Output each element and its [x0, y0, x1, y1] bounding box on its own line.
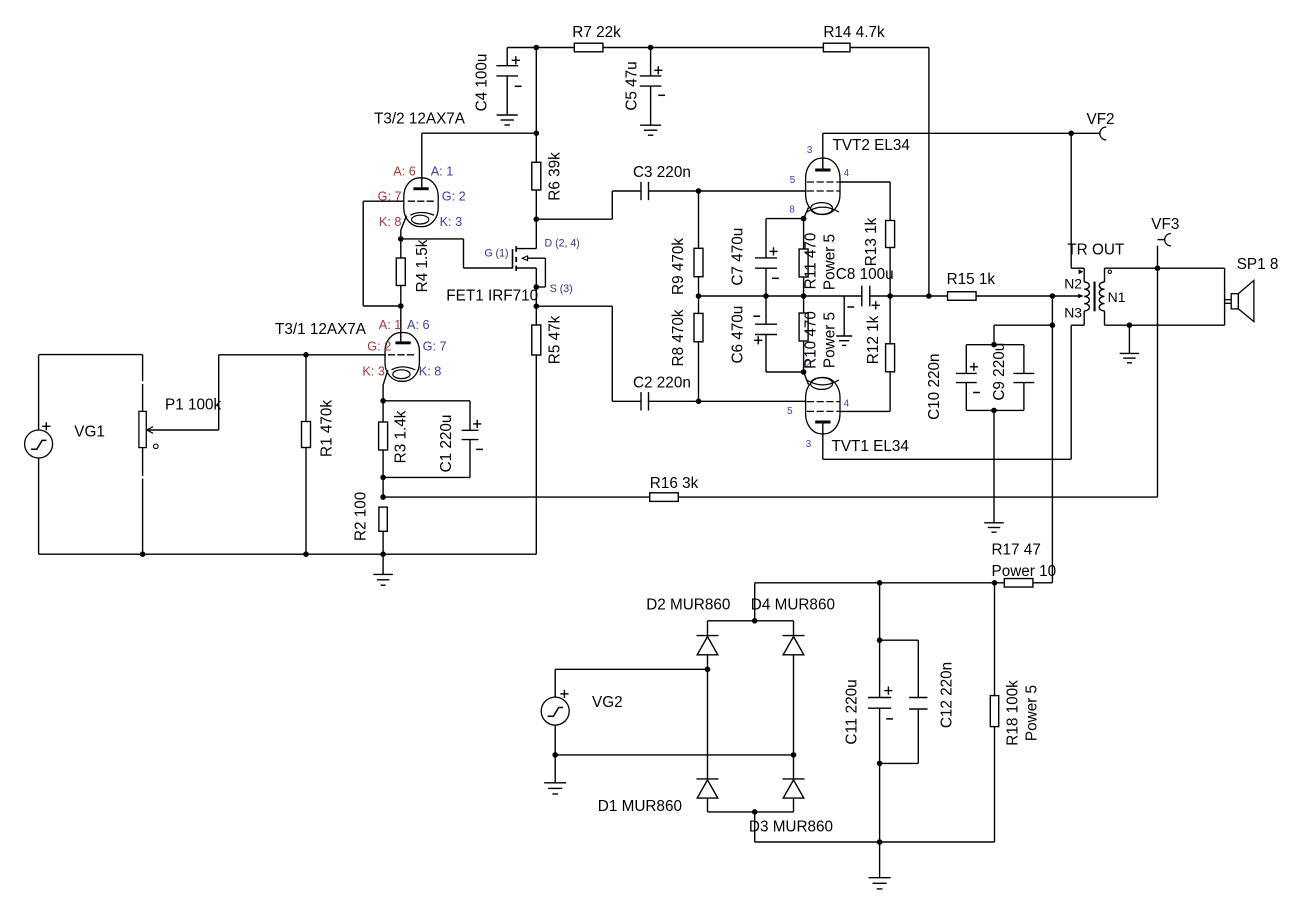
- svg-text:K: 8: K: 8: [419, 364, 442, 378]
- svg-text:R2 100: R2 100: [353, 492, 370, 541]
- svg-text:K: 8: K: 8: [379, 215, 402, 229]
- svg-text:SP1 8: SP1 8: [1237, 256, 1279, 273]
- svg-text:C1 220u: C1 220u: [438, 415, 455, 473]
- svg-text:G: 7: G: 7: [423, 340, 447, 354]
- svg-text:R13 1k: R13 1k: [863, 217, 880, 266]
- svg-text:R9 470k: R9 470k: [670, 238, 687, 295]
- svg-text:C7 470u: C7 470u: [730, 228, 747, 286]
- svg-text:C3 220n: C3 220n: [633, 164, 691, 181]
- svg-text:K: 3: K: 3: [440, 215, 463, 229]
- svg-text:C11 220u: C11 220u: [844, 679, 861, 744]
- svg-text:R10 470: R10 470: [803, 311, 820, 369]
- svg-text:D4 MUR860: D4 MUR860: [751, 596, 835, 613]
- svg-text:TR OUT: TR OUT: [1067, 242, 1124, 259]
- svg-text:Power 5: Power 5: [822, 312, 839, 368]
- svg-text:G: 2: G: 2: [367, 340, 391, 354]
- svg-text:R6 39k: R6 39k: [547, 152, 564, 201]
- svg-text:5: 5: [790, 175, 796, 186]
- svg-text:VG1: VG1: [74, 424, 105, 441]
- svg-text:FET1 IRF710: FET1 IRF710: [446, 288, 538, 305]
- svg-text:G: 2: G: 2: [442, 190, 466, 204]
- svg-text:R8 470k: R8 470k: [670, 309, 687, 366]
- svg-text:C12 220n: C12 220n: [938, 662, 955, 728]
- svg-text:TVT1 EL34: TVT1 EL34: [832, 438, 910, 455]
- svg-text:C6 470u: C6 470u: [730, 306, 747, 364]
- svg-text:4: 4: [844, 399, 850, 410]
- svg-text:8: 8: [789, 205, 795, 216]
- svg-text:R14 4.7k: R14 4.7k: [823, 24, 885, 41]
- svg-text:K: 3: K: 3: [362, 364, 385, 378]
- svg-text:R18 100k: R18 100k: [1004, 680, 1021, 746]
- svg-text:D3 MUR860: D3 MUR860: [749, 818, 833, 835]
- svg-text:3: 3: [806, 439, 812, 450]
- svg-text:C9 220u: C9 220u: [991, 343, 1008, 401]
- svg-text:C5 47u: C5 47u: [624, 61, 641, 110]
- svg-text:A: 1: A: 1: [379, 318, 402, 332]
- svg-text:5: 5: [787, 406, 793, 417]
- svg-text:C10 220n: C10 220n: [926, 354, 943, 420]
- svg-text:TVT2 EL34: TVT2 EL34: [833, 137, 911, 154]
- svg-text:C2 220n: C2 220n: [633, 374, 691, 391]
- svg-text:3: 3: [807, 145, 813, 156]
- svg-text:N2: N2: [1064, 275, 1082, 291]
- svg-text:D (2, 4): D (2, 4): [545, 237, 580, 249]
- svg-text:P1 100k: P1 100k: [165, 397, 221, 414]
- svg-text:4: 4: [844, 168, 850, 179]
- svg-text:R3 1.4k: R3 1.4k: [393, 410, 410, 463]
- svg-text:VF3: VF3: [1151, 216, 1179, 233]
- svg-text:C4 100u: C4 100u: [474, 54, 491, 112]
- svg-text:A: 6: A: 6: [393, 165, 416, 179]
- svg-text:N1: N1: [1108, 289, 1126, 305]
- svg-text:A: 1: A: 1: [431, 165, 454, 179]
- svg-text:D2 MUR860: D2 MUR860: [646, 596, 730, 613]
- svg-text:R17 47: R17 47: [992, 542, 1041, 559]
- svg-text:D1 MUR860: D1 MUR860: [598, 798, 682, 815]
- svg-text:S (3): S (3): [550, 283, 573, 295]
- svg-text:R15 1k: R15 1k: [947, 271, 996, 288]
- svg-text:G (1): G (1): [484, 248, 508, 260]
- svg-text:R4 1.5k: R4 1.5k: [414, 239, 431, 292]
- svg-text:Power 10: Power 10: [992, 563, 1057, 580]
- svg-text:R7 22k: R7 22k: [572, 24, 621, 41]
- svg-text:A: 6: A: 6: [407, 318, 430, 332]
- svg-text:Power 5: Power 5: [1024, 685, 1041, 741]
- svg-text:VG2: VG2: [592, 694, 623, 711]
- svg-text:T3/2 12AX7A: T3/2 12AX7A: [374, 111, 466, 128]
- svg-text:R16 3k: R16 3k: [650, 475, 699, 492]
- svg-text:T3/1 12AX7A: T3/1 12AX7A: [275, 321, 367, 338]
- svg-text:VF2: VF2: [1087, 111, 1115, 128]
- svg-text:R11 470: R11 470: [803, 233, 820, 290]
- svg-text:N3: N3: [1064, 305, 1082, 321]
- svg-text:C8 100u: C8 100u: [836, 266, 894, 283]
- svg-text:R5 47k: R5 47k: [547, 315, 564, 364]
- svg-text:R12 1k: R12 1k: [865, 315, 882, 364]
- svg-text:R1 470k: R1 470k: [319, 400, 336, 457]
